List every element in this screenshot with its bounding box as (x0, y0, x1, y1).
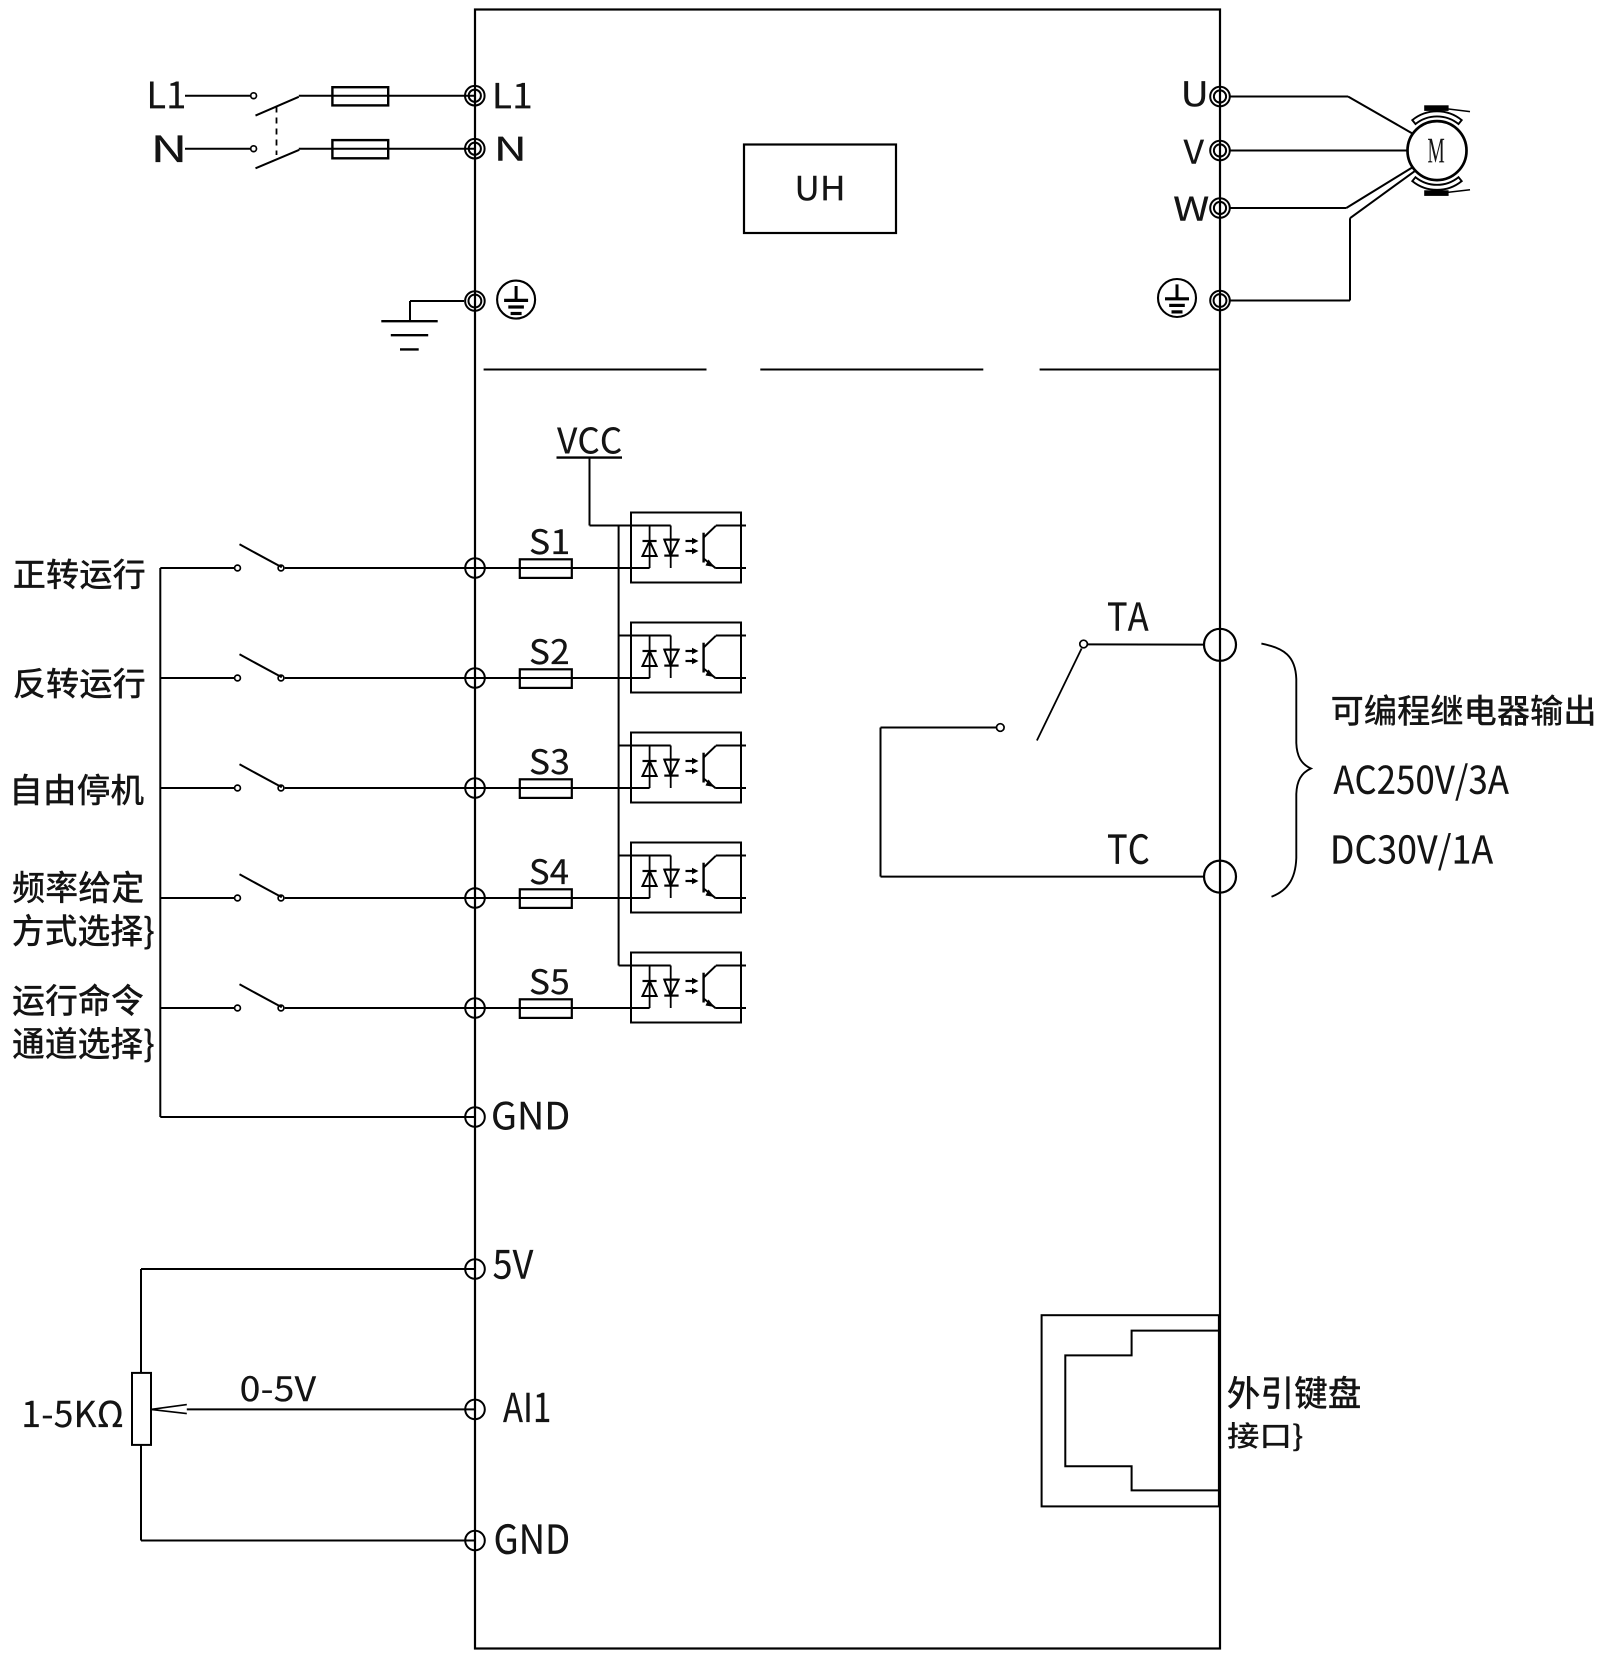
switch K1 right contact (278, 565, 284, 571)
opto-coupler U4 package (631, 843, 741, 913)
opto-coupler U5 LED D5b (down) (664, 978, 678, 980)
node N supply label (155, 135, 182, 162)
terminal label GND (digital) (493, 1101, 568, 1130)
input common bus (left) (159, 568, 161, 1117)
fuse label S4 (531, 859, 569, 885)
switch K4 left contact (235, 895, 241, 901)
opto-coupler U3 LED D3a (up) (643, 760, 657, 762)
terminal S1 (465, 558, 485, 578)
terminal label AI1 (503, 1393, 549, 1422)
relay KA blade (1037, 649, 1082, 741)
wire PE left (410, 300, 464, 302)
terminal PE left (465, 291, 485, 311)
terminal label 5V (493, 1250, 533, 1279)
block UH label box (744, 145, 896, 234)
wire S4 row (160, 897, 234, 899)
fuse S5 body (520, 999, 572, 1018)
protective earth symbol right (1158, 279, 1196, 317)
motor M1 brush lead bottom (1449, 190, 1471, 193)
fuse label S1 (531, 529, 568, 555)
terminal label TC (1108, 834, 1149, 864)
switch K5 left contact (235, 1005, 241, 1011)
wire S3 row (160, 787, 234, 789)
label 0-5V (241, 1376, 316, 1402)
wire N lead (185, 148, 251, 150)
label 通道选择} (13, 1027, 153, 1063)
fuse label S3 (531, 749, 569, 775)
switch K2 right contact (278, 675, 284, 681)
motor M1 brush bar top (1424, 105, 1448, 111)
opto-coupler U2 LED D2a (up) (643, 650, 657, 652)
label 频率给定 (13, 870, 143, 903)
wire VCC bus to opto U3 (619, 745, 671, 747)
label 自由停机 (14, 774, 143, 806)
opto-coupler U4 phototransistor Q4 (702, 863, 704, 893)
terminal PE right (1210, 291, 1230, 311)
opto-coupler U5 phototransistor Q5 (702, 973, 704, 1003)
wire PE to motor frame (1230, 300, 1350, 302)
terminal label L1 (495, 83, 530, 109)
terminal AI1 (465, 1400, 485, 1420)
opto-coupler U1 phototransistor Q1 (702, 533, 704, 563)
label 可编程继电器输出 (1332, 694, 1593, 725)
wire AI1 wiper (187, 1408, 475, 1410)
wire relay common (881, 727, 997, 729)
net VCC label (557, 427, 621, 454)
terminal TA (1204, 629, 1236, 661)
terminal 5V (465, 1259, 485, 1279)
internal separator dashed line (484, 369, 707, 371)
wire L1 lead (185, 95, 251, 97)
switch K4 right contact (278, 895, 284, 901)
terminal V (1210, 141, 1230, 161)
label AC250V/3A (1333, 763, 1508, 801)
label 方式选择} (13, 914, 153, 950)
text UH (798, 176, 842, 201)
protective earth symbol left (497, 281, 535, 319)
brace relay ratings (1261, 644, 1311, 897)
switch K2 left contact (235, 675, 241, 681)
terminal label N (498, 137, 522, 161)
motor M1 brush lead top (1449, 109, 1471, 112)
opto-coupler U3 LED D3b (down) (664, 758, 678, 760)
motor M1 body (1408, 121, 1467, 180)
terminal L1 (465, 86, 485, 106)
terminal GND (analog) (465, 1531, 485, 1551)
switch QS L1 pole blade (256, 97, 299, 116)
terminal W (1210, 198, 1230, 218)
node L1 supply label (150, 82, 184, 109)
net VCC underline (557, 456, 623, 458)
switch K5 right contact (278, 1005, 284, 1011)
label 正转运行 (14, 558, 144, 589)
opto-coupler U3 phototransistor Q3 (702, 753, 704, 783)
opto-coupler U1 LED D1a (up) (643, 540, 657, 542)
terminal label V (1183, 140, 1204, 164)
switch QS L1 pole left contact (251, 93, 257, 99)
terminal GND (digital) (465, 1107, 485, 1127)
switch K1 left contact (235, 565, 241, 571)
opto-coupler U4 light arrows (686, 870, 693, 872)
terminal label U (1184, 81, 1205, 107)
opto-coupler U5 LED rails (649, 966, 651, 1009)
wire VCC bus (618, 526, 620, 966)
opto-coupler U2 phototransistor Q2 (702, 643, 704, 673)
wire V to motor (1230, 150, 1408, 152)
wire 5V to potentiometer (141, 1268, 475, 1270)
motor M1 stator arc bottom (1412, 177, 1461, 190)
fuse FU1 (332, 95, 474, 97)
wire S5 row (160, 1007, 234, 1009)
opto-coupler U4 LED D4a (up) (643, 870, 657, 872)
switch K1 blade (240, 544, 282, 567)
opto-coupler U2 LED rails (649, 636, 651, 679)
opto-coupler U1 package (631, 513, 741, 583)
terminal S3 (465, 778, 485, 798)
opto-coupler U5 package (631, 953, 741, 1023)
opto-coupler U1 LED rails (649, 526, 651, 569)
label DC30V/1A (1333, 833, 1493, 870)
fuse S3 body (520, 779, 572, 798)
opto-coupler U2 package (631, 623, 741, 693)
fuse label S5 (531, 969, 568, 995)
opto-coupler U3 light arrows (686, 760, 693, 762)
label 反转运行 (14, 668, 144, 699)
label 外引键盘 (1228, 1376, 1360, 1410)
terminal U (1210, 87, 1230, 107)
opto-coupler U3 package (631, 733, 741, 803)
terminal label GND (analog) (496, 1524, 568, 1554)
wire L1 blade to fuse (299, 95, 333, 97)
switch K3 blade (240, 764, 282, 787)
opto-coupler U4 LED D4b (down) (664, 868, 678, 870)
opto-coupler U1 LED D1b (down) (664, 538, 678, 540)
relay KA fixed contact (1080, 640, 1088, 648)
wire potentiometer to GND (140, 1445, 142, 1541)
wire VCC bus to opto U5 (619, 965, 671, 967)
switch QS mechanical link (dashed) (276, 107, 278, 156)
terminal S2 (465, 668, 485, 688)
opto-coupler U3 LED rails (649, 746, 651, 789)
inverter UH main box outline (475, 10, 1220, 1649)
switch K3 left contact (235, 785, 241, 791)
motor M1 stator arc top (1412, 111, 1461, 124)
wire VCC bus to opto U2 (619, 635, 671, 637)
switch K2 blade (240, 654, 282, 677)
opto-coupler U5 light arrows (686, 980, 693, 982)
wire GND digital row (160, 1116, 475, 1118)
switch QS N pole blade (256, 150, 300, 169)
potentiometer RP1 body (132, 1373, 151, 1445)
fuse S1 body (520, 559, 572, 578)
wire VCC bus to opto U4 (619, 855, 671, 857)
keypad connector J1 outline (1042, 1315, 1219, 1506)
label 1-5KΩ (24, 1400, 122, 1427)
wire TA (1088, 643, 1205, 645)
label 接口} (1228, 1422, 1302, 1451)
switch K5 blade (240, 984, 282, 1007)
relay KA moving contact (997, 724, 1005, 732)
ground symbol left (381, 320, 437, 322)
potentiometer RP1 wiper arrow (151, 1405, 187, 1414)
terminal TC (1204, 861, 1236, 893)
wire S2 row (160, 677, 234, 679)
fuse label S2 (531, 639, 568, 665)
keypad connector J1 socket profile (1065, 1331, 1219, 1491)
switch QS N pole left contact (251, 146, 257, 152)
fuse FU2 (299, 148, 475, 150)
opto-coupler U1 light arrows (686, 540, 693, 542)
wire S1 row (160, 567, 234, 569)
wire U to motor (1230, 96, 1348, 98)
terminal label W (1174, 197, 1208, 221)
fuse S4 body (520, 889, 572, 908)
opto-coupler U4 LED rails (649, 856, 651, 899)
terminal S5 (465, 998, 485, 1018)
wire VCC feed (589, 458, 591, 526)
fuse S2 body (520, 669, 572, 688)
switch K4 blade (240, 874, 282, 897)
opto-coupler U5 LED D5a (up) (643, 980, 657, 982)
terminal S4 (465, 888, 485, 908)
motor M1 letter (1428, 139, 1444, 163)
switch K3 right contact (278, 785, 284, 791)
wire W to motor (1230, 207, 1347, 209)
terminal N (465, 139, 485, 159)
opto-coupler U2 light arrows (686, 650, 693, 652)
terminal label TA (1108, 602, 1149, 630)
opto-coupler U2 LED D2b (down) (664, 648, 678, 650)
motor M1 brush bar bottom (1424, 190, 1448, 196)
label 运行命令 (13, 983, 143, 1016)
